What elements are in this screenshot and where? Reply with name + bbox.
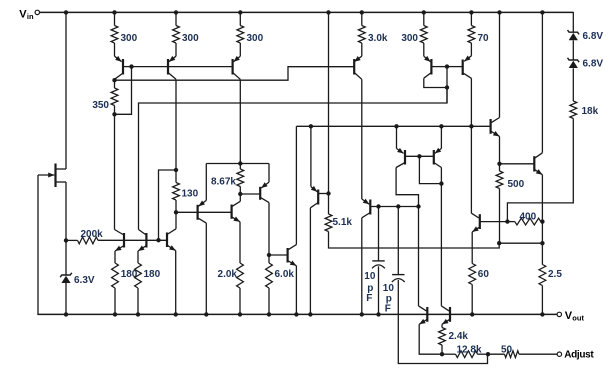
wire R14 to Q16 (423, 43, 425, 56)
resistor R5 180 (112, 263, 119, 288)
node mirror left feed (394, 124, 398, 128)
svg-text:300: 300 (121, 33, 138, 44)
wire base/collector tie vertical (446, 67, 448, 103)
transistor Q16 pnp diode-connected (424, 56, 432, 78)
svg-text:60: 60 (478, 269, 490, 280)
transistor Q12 pnp (310, 186, 318, 208)
label R18 2.5 (548, 269, 562, 280)
resistor R11 6.0k (266, 263, 273, 288)
svg-text:3.0k: 3.0k (368, 33, 388, 44)
wire Q3 collector down (175, 79, 177, 170)
wire R11 to bottom rail (268, 288, 270, 314)
wire node to R4 (175, 170, 177, 183)
svg-text:in: in (27, 12, 34, 21)
junction Vout-rail dot 2 (113, 312, 117, 316)
transistor Q4 pnp (233, 56, 241, 79)
svg-text:6.3V: 6.3V (74, 275, 95, 286)
wire Q7 collector long line up/right (139, 88, 448, 230)
svg-text:F: F (366, 293, 372, 304)
node 400 right (540, 219, 544, 223)
resistor R14 300 (420, 26, 427, 44)
resistor R15 70 (468, 26, 475, 44)
junction top-rail dot 9 (497, 10, 501, 14)
wire Q22 emitter to R21 (441, 324, 443, 327)
svg-text:500: 500 (508, 179, 525, 190)
wire Q11 base line (269, 254, 288, 256)
wire Q12 base to node (318, 193, 328, 195)
wire rail to R13 (361, 12, 363, 26)
wire 400-left up to 18k (507, 119, 573, 222)
wire node to zener D1 (65, 240, 67, 275)
wire Q7 emitter to R6 (137, 251, 139, 263)
node mirror base (417, 154, 421, 158)
node Q9b base (238, 192, 242, 196)
wire Q9b collector down (268, 203, 270, 255)
wire Q6 emitter to R5 (114, 251, 116, 263)
terminal Vin circle (35, 10, 39, 14)
wire Q2 collector to R2 (114, 80, 116, 88)
svg-text:180: 180 (144, 269, 161, 280)
resistor R1 300 (111, 26, 118, 44)
junction Vout-rail dot 4 (174, 312, 178, 316)
svg-text:10: 10 (364, 271, 376, 282)
svg-text:2.0k: 2.0k (218, 269, 238, 280)
wire Q20 emitter down (541, 175, 543, 265)
capacitor C2 10pF (392, 275, 405, 282)
resistor R4 130 (173, 183, 180, 201)
terminal Vout circle (557, 312, 561, 316)
junction top-rail dot 5 (326, 10, 330, 14)
junction Vout-rail dot 13 (540, 312, 544, 316)
svg-text:350: 350 (92, 100, 109, 111)
resistor R23 50 (505, 351, 520, 358)
junction top-rail dot 3 (174, 10, 178, 14)
wire mirror left emitter (396, 126, 398, 148)
wire Q9 collector to bottom rail (205, 223, 207, 314)
svg-text:300: 300 (182, 33, 199, 44)
wire Q17 collector down (470, 78, 472, 213)
label R7 200k (81, 229, 104, 240)
wire Q11 emitter to bottom rail (295, 266, 297, 315)
junction top-rail dot 7 (422, 10, 426, 14)
transistor Q17 pnp (463, 56, 472, 79)
node Q2 collector (112, 78, 116, 82)
resistor R22 12.8k (456, 351, 478, 358)
resistor R19 400 (507, 218, 542, 225)
transistor Q2 pnp (115, 56, 124, 80)
wire Q13 base line y206 (370, 206, 418, 208)
transistor Q1 JFET current source (38, 164, 66, 188)
wire node to output emitter (499, 242, 542, 244)
wire 12.8k to node (478, 353, 489, 355)
transistor Q15 pnp mirror-right (434, 148, 442, 168)
resistor R21 2.4k (439, 328, 446, 346)
node R4 bottom (174, 210, 178, 214)
svg-text:70: 70 (478, 33, 490, 44)
junction top-rail dot 2 (112, 10, 116, 14)
node output emitter join (540, 241, 544, 245)
zener D2 6.8V (568, 30, 580, 40)
label C1 10pF (364, 271, 376, 304)
resistor R9 8.67k (237, 169, 244, 187)
wire rail down to Q19 collector (499, 12, 501, 118)
resistor R6 180 (135, 263, 142, 288)
transistor Q8 npn (167, 229, 176, 251)
wire rail down to Q20 collector (541, 12, 543, 153)
wire rail to R8 (239, 12, 241, 26)
wire R1 to Q2 (114, 43, 116, 56)
wire R12 bottom long line y248 (329, 232, 500, 249)
transistor Q9 pnp (198, 200, 207, 223)
junction Vout-rail dot 9 (308, 312, 312, 316)
wire Vin to JFET drain (65, 12, 67, 169)
wire node to R12 (328, 194, 330, 215)
node Q12 base / Vin line (326, 191, 330, 195)
wire mirror base stub (419, 156, 441, 183)
wire Q19 emitter to node (499, 136, 501, 163)
label R22 12.8k (457, 345, 482, 356)
resistor R18 2.5 (539, 265, 546, 286)
wire Q14 collector to node206 (396, 168, 418, 207)
wire R5 to bottom rail (114, 288, 116, 314)
capacitor C1 10pF (372, 261, 385, 268)
transistor Q21 npn sense (419, 306, 428, 324)
node Q3 collector branch (174, 168, 178, 172)
label R15 70 (478, 33, 490, 44)
svg-text:6.0k: 6.0k (275, 269, 295, 280)
wire Q2 collector step line (115, 67, 355, 81)
wire Vin rail down to Q12 base (328, 12, 330, 194)
label R19 400 (520, 212, 537, 223)
transistor Q3 pnp (168, 56, 176, 79)
wire C2 bottom to adjust net (398, 280, 487, 364)
wire zener D1 to bottom rail (65, 283, 67, 314)
label Vin (19, 8, 34, 21)
label Adjust (564, 349, 594, 360)
transistor Q9b pnp (240, 182, 269, 203)
junction top-rail dot 8 (469, 10, 473, 14)
label R5 180 (121, 269, 138, 280)
svg-text:Adjust: Adjust (564, 349, 594, 360)
label D3 6.8V (583, 59, 604, 70)
wire node to R9 (239, 164, 241, 170)
wire Q21 collector down (418, 207, 420, 306)
resistor R13 3.0k (358, 26, 365, 44)
transistor Q19 npn darlington-1 (491, 118, 500, 137)
label R10 2.0k (218, 269, 238, 280)
junction Vout-rail dot 11 (376, 312, 380, 316)
junction Vout-rail dot 6 (238, 312, 242, 316)
junction Vout-rail dot 12 (470, 312, 474, 316)
wire node to Q20 base (500, 163, 535, 165)
wire node to R23 (488, 353, 505, 355)
terminal Adjust circle (557, 352, 561, 356)
label R4 130 (182, 189, 199, 200)
wire R10 to bottom rail (239, 288, 241, 314)
label R17 500 (508, 179, 525, 190)
wire R17 down to node (499, 189, 501, 244)
wire Vin top rail (40, 11, 574, 13)
wire Q5 collector down (361, 79, 363, 199)
label R6 180 (144, 269, 161, 280)
label R13 3.0k (368, 33, 388, 44)
wire Q12 emitter feed (310, 126, 312, 186)
junction top-rail dot 10 (540, 10, 544, 14)
resistor R20 18k (570, 101, 577, 119)
label R12 5.1k (333, 217, 353, 228)
svg-text:2.4k: 2.4k (449, 331, 469, 342)
wire rail to R14 (423, 12, 425, 26)
wire R2 to node (114, 106, 116, 115)
junction Vout-rail dot 8 (294, 312, 298, 316)
wire box left edge (205, 164, 207, 201)
wire Q10 emitter to R10 (239, 222, 241, 263)
wire R15 to Q17 (470, 43, 472, 56)
svg-text:130: 130 (182, 189, 199, 200)
wire zener D2 to top rail (572, 12, 574, 32)
node Q17 collector line126 (469, 124, 473, 128)
wire R16 to bottom rail (471, 285, 473, 315)
transistor Q7 npn 180-right (138, 230, 146, 252)
wire node to R11 (268, 255, 270, 263)
wire mirror base line (405, 155, 434, 157)
wire Vout rail (37, 313, 557, 315)
transistor Q5 pnp (354, 56, 362, 79)
node mirror collector join (416, 204, 420, 208)
wire Q2 base to node (123, 66, 132, 68)
resistor R3 300 (173, 26, 180, 44)
wire JFET gate down-left (37, 175, 39, 314)
node 400 left (505, 219, 509, 223)
wire R18 to bottom rail (541, 286, 543, 315)
junction Vout-rail dot 5 (204, 312, 208, 316)
label R3 300 (182, 33, 199, 44)
wire C1 top lead (378, 207, 380, 261)
node Q15 collector/base tie (439, 181, 443, 185)
svg-text:out: out (572, 313, 584, 322)
junction Vout-rail dot 1 (64, 312, 68, 316)
wire R2 bottom to base node (115, 67, 132, 115)
wire 8.67k box top edge (206, 163, 269, 165)
resistor R8 300 (237, 26, 244, 44)
wire base rail Q2-Q3-Q4 (132, 66, 233, 68)
svg-text:200k: 200k (81, 229, 104, 240)
label R11 6.0k (275, 269, 295, 280)
node line126 Q12 feed (309, 124, 313, 128)
wire 18k up to zener D3 (572, 68, 574, 101)
node 6.0k top (267, 253, 271, 257)
transistor Q10 npn (232, 201, 241, 222)
wire branch to mirror base (159, 170, 177, 240)
wire C2 top lead (397, 207, 399, 275)
node mirror right feed (439, 124, 443, 128)
wire zener D3 to D2 (572, 40, 574, 60)
svg-text:50: 50 (501, 345, 513, 356)
label C2 10pF (383, 283, 395, 315)
svg-text:F: F (385, 304, 391, 315)
junction Vout-rail dot 10 (360, 312, 364, 316)
wire emitter feed line y126 (296, 125, 490, 127)
wire rail to R1 (114, 12, 116, 26)
svg-text:5.1k: 5.1k (333, 217, 353, 228)
zener D3 6.8V (568, 58, 580, 68)
wire R13 to Q5 (361, 43, 363, 56)
label D2 6.8V (583, 31, 604, 42)
junction Vout-rail dot 3 (136, 312, 140, 316)
resistor R10 2.0k (237, 263, 244, 288)
wire Q18 emitter down (471, 232, 473, 264)
node adjust-left (440, 352, 444, 356)
zener D1 6.3V (60, 273, 72, 283)
node mirror base / line148 junction (156, 238, 160, 242)
label R20 18k (582, 106, 599, 117)
wire R9 to base node (239, 187, 241, 195)
svg-text:6.8V: 6.8V (583, 31, 604, 42)
wire node down to Q6 collector (114, 114, 116, 229)
wire C1 bottom to rail (378, 266, 380, 314)
wire Q4 collector down (239, 79, 241, 163)
junction Vout-rail dot 7 (267, 312, 271, 316)
svg-text:8.67k: 8.67k (211, 177, 236, 188)
node R2 bottom (112, 112, 116, 116)
transistor Q22 npn sense (441, 306, 450, 324)
svg-text:400: 400 (520, 212, 537, 223)
wire R8 to Q4 (239, 43, 241, 56)
wire mirror right emitter (440, 126, 442, 148)
label R8 300 (247, 33, 264, 44)
wire mirror base line (66, 239, 167, 241)
wire adjust lead-in (442, 353, 456, 355)
transistor Q11 npn (288, 245, 297, 266)
wire R3 to Q3 (175, 43, 177, 56)
label R16 60 (478, 269, 490, 280)
wire R23 to adjust terminal (519, 353, 557, 355)
node 200k/zener junction (64, 238, 68, 242)
wire Q9/Q10 base line (176, 211, 232, 213)
resistor R16 60 (469, 264, 476, 285)
wire Q8 emitter to bottom rail (175, 251, 177, 315)
label R21 2.4k (449, 331, 469, 342)
label R1 300 (121, 33, 138, 44)
wire box right edge (268, 164, 270, 183)
wire Q21 emitter to adjust line (419, 324, 442, 354)
junction top-rail dot 4 (238, 10, 242, 14)
transistor Q18 npn (471, 213, 479, 232)
transistor Q6 npn 180-left (115, 230, 125, 252)
wire Q15 collector down to Q17 (440, 168, 442, 306)
node adjust-mid (486, 352, 490, 356)
label R2 350 (92, 100, 109, 111)
transistor Q20 npn darlington-2 (534, 153, 542, 175)
wire R4 to Q8 base node (175, 200, 177, 212)
wire Q11 collector up to line126 (295, 126, 297, 244)
svg-text:6.8V: 6.8V (583, 59, 604, 70)
wire Q13 collector to bottom rail (361, 218, 363, 315)
label R9 8.67k (211, 177, 236, 188)
node R17 bottom (497, 241, 501, 245)
wire node down to Q8 collector (175, 212, 177, 229)
label 6.3V (74, 275, 95, 286)
svg-text:300: 300 (401, 33, 418, 44)
node darlington mid (497, 162, 501, 166)
wire node down to Q10 collector (239, 194, 241, 201)
resistor R7 200k (78, 237, 99, 244)
wire Q12 collector to bottom rail (309, 208, 311, 315)
wire rail to R3 (175, 12, 177, 26)
wire Q18 base line (480, 221, 508, 223)
wire JFET source to 200k node (65, 182, 67, 240)
svg-text:10: 10 (383, 283, 395, 294)
wire Q16 base line to Q17 (447, 66, 463, 68)
wire Q16 collector tie (424, 78, 447, 87)
wire Q16 base to node (431, 66, 447, 68)
resistor R17 500 (496, 171, 503, 189)
transistor Q13 pnp gain stage (362, 199, 371, 218)
label R23 50 (501, 345, 513, 356)
junction top-rail dot 1 (64, 10, 68, 14)
svg-text:2.5: 2.5 (548, 269, 562, 280)
node Q16 base tie (445, 64, 449, 68)
node cap C2 top (396, 204, 400, 208)
wire rail to R15 (470, 12, 472, 26)
transistor Q14 pnp mirror-left (396, 148, 405, 168)
svg-text:18k: 18k (582, 106, 599, 117)
wire R21 to adjust node (441, 345, 443, 354)
node cap C1 top (376, 204, 380, 208)
wire R6 to bottom rail (137, 288, 139, 314)
node Q16 collector tie (445, 85, 449, 89)
label R14 300 (401, 33, 418, 44)
resistor R2 350 (111, 88, 118, 106)
junction top-rail dot 6 (360, 10, 364, 14)
node 8.67k box top (238, 161, 242, 165)
svg-text:300: 300 (247, 33, 264, 44)
node Q2 base junction (129, 64, 133, 68)
wire node to R17 (499, 164, 501, 171)
resistor R12 5.1k (325, 214, 332, 232)
label Vout (565, 310, 585, 323)
